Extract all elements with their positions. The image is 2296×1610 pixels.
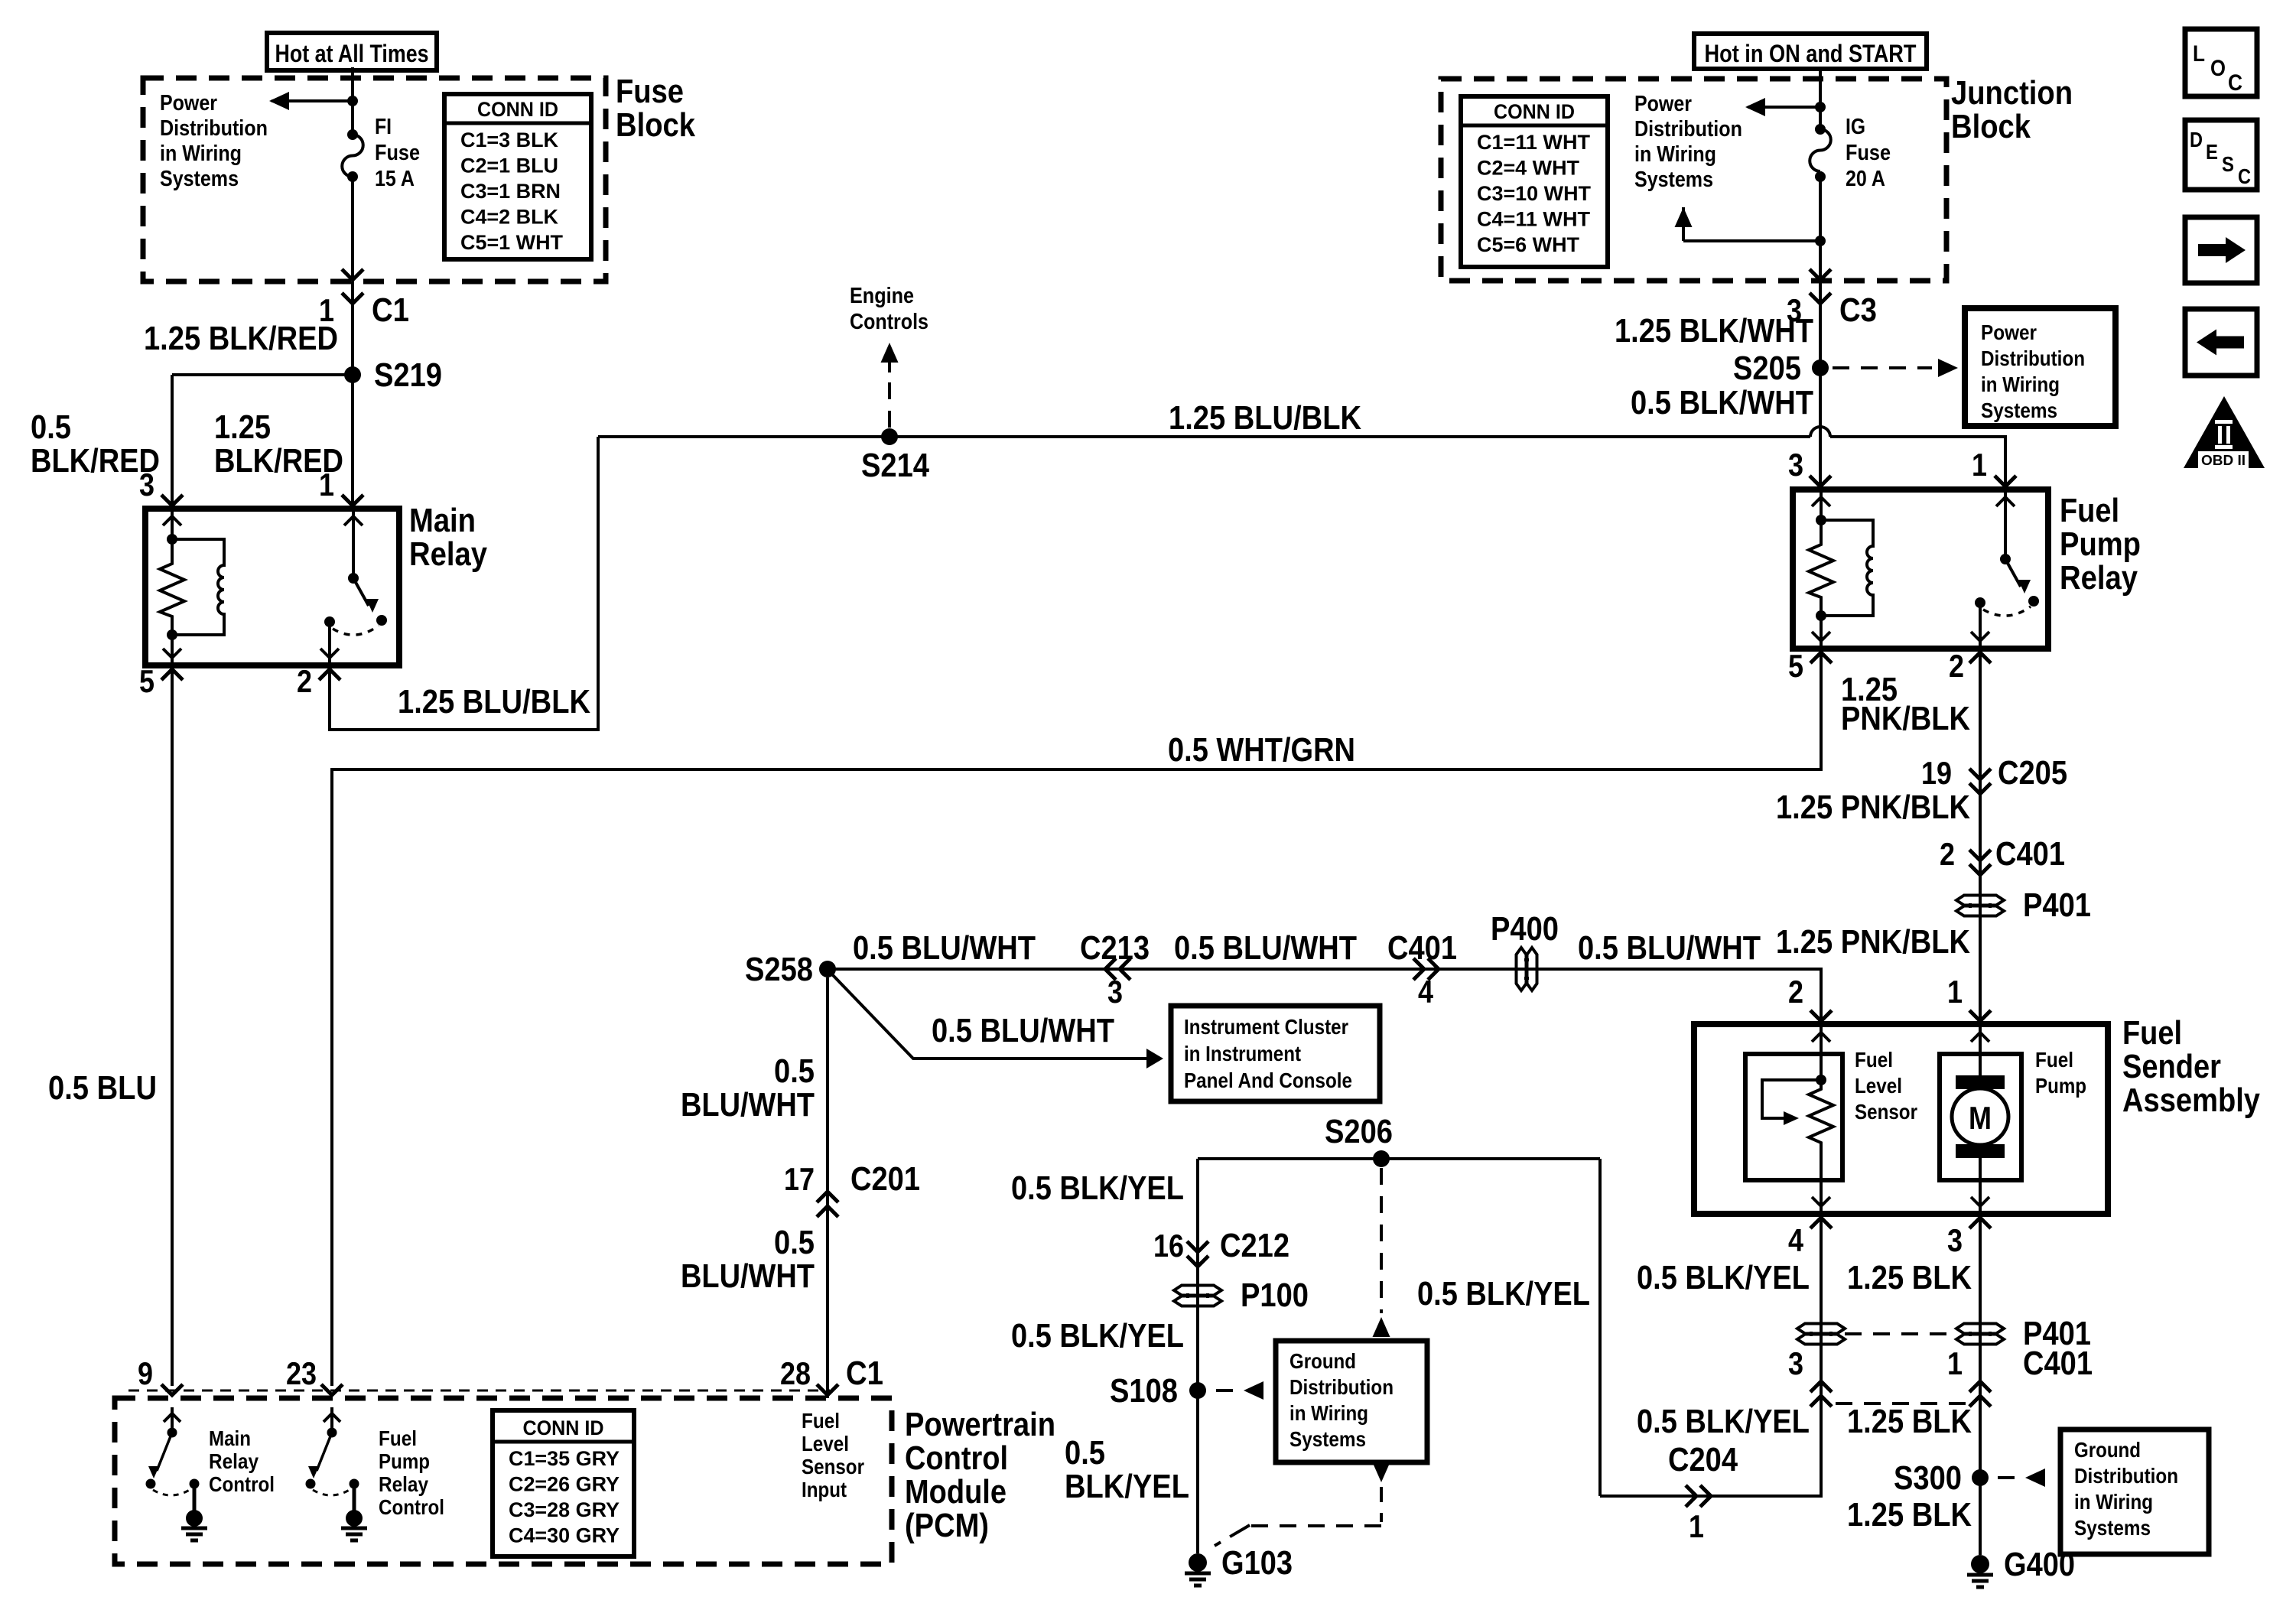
splice S258 dot <box>819 961 836 977</box>
connector P401 pancake (pin 4 side) <box>1797 1324 1845 1334</box>
svg-text:Controls: Controls <box>850 310 928 334</box>
wire S258 to instrument cluster <box>832 974 1157 1059</box>
svg-text:C4=30 GRY: C4=30 GRY <box>509 1524 620 1547</box>
connector C1 pin 1 chevron <box>342 293 363 304</box>
svg-text:S206: S206 <box>1325 1113 1393 1150</box>
fuel pump relay box <box>1793 490 2048 649</box>
arrow to power distribution (left) <box>272 99 353 102</box>
wire S206 horizontal run (0.5 BLK/YEL) <box>1198 1157 1600 1160</box>
splice S108 dot <box>1189 1382 1206 1399</box>
relay switch arm <box>2005 559 2021 587</box>
svg-text:E: E <box>2206 140 2218 164</box>
svg-text:2: 2 <box>1949 648 1964 684</box>
svg-text:C401: C401 <box>1995 835 2065 873</box>
connector C212 chevrons <box>1187 1241 1208 1252</box>
ground G400 symbol <box>1971 1555 1989 1573</box>
fuel level sensor feed wire with arrow <box>1820 1024 1823 1080</box>
svg-text:0.5 WHT/GRN: 0.5 WHT/GRN <box>1168 731 1355 769</box>
svg-text:Instrument Cluster: Instrument Cluster <box>1184 1015 1348 1039</box>
relay coil-side wire with entry arrow <box>1820 490 1823 520</box>
svg-text:Panel And Console: Panel And Console <box>1184 1068 1352 1092</box>
svg-text:Systems: Systems <box>1634 168 1713 192</box>
main relay box <box>145 509 399 665</box>
svg-text:0.5 BLK/YEL: 0.5 BLK/YEL <box>1637 1403 1810 1440</box>
svg-text:0.5 BLU: 0.5 BLU <box>48 1069 157 1107</box>
label box Hot in ON and START <box>1694 34 1927 69</box>
relay coil <box>172 539 224 635</box>
svg-text:C2=4 WHT: C2=4 WHT <box>1477 157 1580 180</box>
relay switch arm <box>353 578 369 606</box>
reference box Ground Distribution in Wiring Systems (right) <box>2060 1429 2209 1554</box>
relay switch output contact dot <box>324 616 335 627</box>
relay switch dashed travel arc <box>1983 607 2031 616</box>
PCM connector C1 thin dashed line <box>128 1390 830 1392</box>
svg-text:Fuel: Fuel <box>379 1426 417 1450</box>
wire S206 to G103 (0.5 BLK/YEL) <box>1196 1159 1199 1553</box>
icon box DESC <box>2185 120 2257 190</box>
svg-text:Engine: Engine <box>850 284 914 308</box>
svg-text:Fuse: Fuse <box>375 141 420 165</box>
wire battery feed into fuse block <box>351 67 354 135</box>
PCM driver switch arm with arrowhead <box>157 1433 172 1471</box>
svg-text:2: 2 <box>297 663 312 699</box>
svg-text:3: 3 <box>1107 974 1123 1010</box>
connector chevron PCM pin 23 <box>321 1384 343 1395</box>
dashed wire S206 to ground distribution box (arrow up) <box>1380 1168 1383 1313</box>
svg-text:Systems: Systems <box>1981 398 2057 422</box>
wire fuel sender pin 4 (0.5 BLK/YEL) to C204 <box>1600 1219 1821 1496</box>
wire 1.25 BLU/BLK long run to fuel pump relay <box>598 435 1810 438</box>
svg-text:G103: G103 <box>1221 1544 1293 1582</box>
fuel level sensor junction dot <box>1816 1075 1826 1085</box>
svg-text:S108: S108 <box>1110 1372 1178 1410</box>
fuel pump feed wire with arrow <box>1979 1024 1982 1078</box>
svg-text:in Wiring: in Wiring <box>160 141 242 166</box>
svg-text:Main: Main <box>409 502 476 539</box>
svg-text:CONN ID: CONN ID <box>477 98 558 121</box>
connector chevron fuel pump relay pin 3 <box>1810 476 1831 486</box>
svg-text:C3=1 BRN: C3=1 BRN <box>460 180 561 203</box>
dashed tie between P401 halves <box>1845 1332 1955 1335</box>
connector P400 pancake <box>1517 948 1527 990</box>
icon box left arrow <box>2185 309 2257 376</box>
svg-text:P100: P100 <box>1241 1277 1309 1314</box>
relay coil bottom junction dot <box>167 629 177 640</box>
fuel level sensor output wire with arrow <box>1820 1180 1823 1214</box>
svg-text:Distribution: Distribution <box>1634 117 1742 141</box>
svg-text:1: 1 <box>1947 974 1963 1010</box>
wire fuel pump relay pin 5 (0.5 WHT/GRN) to PCM pin 23 <box>332 654 1821 1386</box>
wire fuel pump relay pin 2 to fuel sender pin 1 <box>1979 654 1982 1024</box>
svg-text:Relay: Relay <box>2060 559 2138 597</box>
wire S258 to fuel sender pin 2 (0.5 BLU/WHT) <box>828 969 1821 1024</box>
PCM driver switch dashed arc <box>153 1488 192 1495</box>
wire C3 to S205 to fuel pump relay pin 3 <box>1819 281 1822 493</box>
svg-text:CONN ID: CONN ID <box>1494 100 1575 123</box>
svg-text:Systems: Systems <box>160 167 239 191</box>
svg-text:0.5 BLK/YEL: 0.5 BLK/YEL <box>1011 1169 1184 1207</box>
connector C201 chevrons <box>817 1206 838 1217</box>
svg-text:C2=1 BLU: C2=1 BLU <box>460 154 558 177</box>
connector chevron fuel pump relay pin 2 <box>1969 652 1991 663</box>
PCM driver switch dashed arc <box>313 1488 352 1495</box>
svg-text:C204: C204 <box>1668 1441 1738 1478</box>
connector chevron fuel sender pin 2 <box>1810 1010 1832 1021</box>
relay switch output contact dot <box>1975 597 1985 608</box>
svg-text:1.25 PNK/BLK: 1.25 PNK/BLK <box>1776 789 1970 826</box>
svg-text:C2=26 GRY: C2=26 GRY <box>509 1473 620 1496</box>
svg-text:Fuel: Fuel <box>2060 492 2119 529</box>
svg-text:C401: C401 <box>2023 1345 2093 1382</box>
svg-text:Systems: Systems <box>1289 1427 1366 1451</box>
svg-text:C3=28 GRY: C3=28 GRY <box>509 1498 620 1521</box>
svg-text:Sensor: Sensor <box>1855 1100 1917 1124</box>
svg-text:S300: S300 <box>1894 1459 1962 1497</box>
svg-text:Relay: Relay <box>209 1449 259 1473</box>
svg-text:Distribution: Distribution <box>160 116 268 141</box>
dashed tie between C401 halves <box>1836 1402 1966 1405</box>
fuel sender assembly box <box>1694 1024 2108 1214</box>
PCM driver switch entry arrow <box>171 1407 174 1433</box>
PCM driver ground stem <box>353 1484 356 1511</box>
svg-text:CONN ID: CONN ID <box>523 1416 604 1439</box>
conn id table (PCM) <box>493 1410 634 1556</box>
relay switch pivot dot <box>348 573 359 584</box>
svg-text:S219: S219 <box>374 356 442 394</box>
junction dot at ignition feed <box>1815 102 1826 112</box>
svg-text:Sensor: Sensor <box>802 1455 864 1478</box>
powertrain control module dashed box <box>115 1398 892 1564</box>
reference box Ground Distribution in Wiring Systems (middle) <box>1276 1341 1427 1462</box>
svg-text:D: D <box>2190 128 2203 151</box>
connector chevron main relay pin 5 <box>161 669 183 680</box>
svg-text:Level: Level <box>802 1432 849 1456</box>
svg-text:C4=2 BLK: C4=2 BLK <box>460 206 558 229</box>
relay switch thrown-contact dot <box>376 615 387 626</box>
relay switch output wire with exit arrow <box>1979 603 1982 649</box>
splice S206 dot <box>1373 1150 1390 1167</box>
svg-text:Power: Power <box>1981 320 2037 344</box>
connector C205 chevrons <box>1969 769 1991 779</box>
svg-text:in Wiring: in Wiring <box>1289 1401 1368 1425</box>
svg-text:M: M <box>1969 1100 1992 1136</box>
svg-text:Control: Control <box>905 1439 1008 1477</box>
svg-text:S205: S205 <box>1733 350 1801 387</box>
svg-text:C1=11 WHT: C1=11 WHT <box>1477 131 1590 154</box>
svg-text:C5=6 WHT: C5=6 WHT <box>1477 233 1580 256</box>
connector C3 pin 3 chevron <box>1810 293 1831 304</box>
PCM driver switch arm with arrowhead <box>317 1433 332 1471</box>
dashed arrow S205 to power distribution box <box>1833 366 1932 369</box>
icon box right arrow <box>2185 217 2257 283</box>
svg-text:Hot in ON and START: Hot in ON and START <box>1705 40 1917 67</box>
PCM driver switch pivot dot <box>327 1428 337 1438</box>
conn id table (junction block) <box>1461 96 1608 267</box>
svg-text:Sender: Sender <box>2122 1048 2221 1085</box>
svg-text:BLU/WHT: BLU/WHT <box>681 1086 815 1124</box>
wire main relay pin 2 to 1.25 BLU/BLK run <box>330 437 598 730</box>
dashed arrow S300 to ground distribution box <box>1998 1476 2019 1479</box>
svg-text:in Instrument: in Instrument <box>1184 1042 1301 1065</box>
wire C1 to S219 and main relay pin 1 <box>351 281 354 509</box>
svg-text:Module: Module <box>905 1473 1007 1511</box>
reference box Instrument Cluster in Instrument Panel And Console <box>1171 1006 1380 1101</box>
conn id table (fuse block) <box>444 94 591 259</box>
fuel level sensor resistor <box>1809 1080 1833 1180</box>
svg-text:2: 2 <box>1940 836 1955 872</box>
splice S205 dot <box>1812 359 1829 376</box>
fuel pump motor circle with M <box>1952 1088 2008 1145</box>
junction block dashed box <box>1441 79 1946 281</box>
svg-text:5: 5 <box>1788 648 1803 684</box>
exit arrow at junction block edge <box>1810 269 1831 280</box>
svg-text:Control: Control <box>209 1472 275 1496</box>
svg-text:in Wiring: in Wiring <box>2074 1490 2153 1514</box>
svg-text:Pump: Pump <box>379 1449 430 1473</box>
connector chevron main relay pin 1 <box>342 495 363 506</box>
svg-text:OBD II: OBD II <box>2201 453 2246 468</box>
svg-text:Powertrain: Powertrain <box>905 1406 1055 1443</box>
svg-text:5: 5 <box>139 663 154 699</box>
svg-text:Main: Main <box>209 1426 251 1450</box>
svg-text:C1: C1 <box>846 1355 883 1392</box>
fuse IG 20A symbol <box>1815 124 1826 135</box>
svg-text:in Wiring: in Wiring <box>1981 372 2060 396</box>
svg-text:Pump: Pump <box>2035 1074 2086 1098</box>
fuel pump motor brushes <box>1956 1075 2005 1089</box>
svg-text:1.25 BLU/BLK: 1.25 BLU/BLK <box>1169 399 1361 437</box>
svg-text:1: 1 <box>1972 447 1987 483</box>
svg-text:1: 1 <box>1689 1508 1704 1544</box>
relay switch thrown-contact dot <box>2028 596 2039 607</box>
wire hop over 0.5 BLK/WHT wire <box>1810 427 1830 437</box>
svg-text:0.5: 0.5 <box>1065 1434 1105 1472</box>
svg-text:Fuel: Fuel <box>2122 1014 2182 1052</box>
connector P100 pancake <box>1174 1286 1221 1296</box>
junction dot at fuse feed <box>347 96 358 106</box>
svg-text:0.5: 0.5 <box>774 1224 815 1261</box>
PCM driver switch closed contact dot <box>350 1479 359 1489</box>
svg-text:C3: C3 <box>1839 291 1877 329</box>
fuel level sensor wiper arrow <box>1762 1080 1821 1118</box>
wire IG fuse to C3 <box>1819 171 1822 280</box>
connector chevron fuel pump relay pin 1 <box>1995 476 2016 486</box>
svg-text:in Wiring: in Wiring <box>1634 142 1716 167</box>
svg-text:C: C <box>2228 70 2242 96</box>
svg-text:O: O <box>2210 56 2226 81</box>
connector C204 chevrons <box>1686 1485 1696 1507</box>
svg-text:Power: Power <box>1634 92 1692 116</box>
svg-text:Systems: Systems <box>2074 1516 2151 1540</box>
connector chevron PCM pin 9 <box>161 1384 183 1395</box>
connector C401 chevrons (pin 2) <box>1969 850 1991 860</box>
fuse block dashed box <box>143 78 606 281</box>
svg-text:Relay: Relay <box>409 535 487 573</box>
svg-text:4: 4 <box>1788 1222 1804 1258</box>
svg-text:C212: C212 <box>1220 1227 1289 1264</box>
connector chevron main relay pin 2 <box>319 669 340 680</box>
svg-text:1.25 BLK/RED: 1.25 BLK/RED <box>144 320 338 357</box>
relay resistor <box>1809 520 1833 616</box>
PCM driver switch closed contact dot <box>190 1479 200 1489</box>
svg-text:Distribution: Distribution <box>2074 1464 2178 1488</box>
svg-text:Relay: Relay <box>379 1472 428 1496</box>
svg-text:0.5 BLK/YEL: 0.5 BLK/YEL <box>1011 1317 1184 1355</box>
svg-text:1: 1 <box>1947 1345 1963 1381</box>
connector chevron fuel pump relay pin 5 <box>1810 652 1832 663</box>
svg-text:28: 28 <box>780 1355 811 1391</box>
svg-text:1.25 BLU/BLK: 1.25 BLU/BLK <box>398 683 590 720</box>
svg-text:3: 3 <box>1788 1345 1803 1381</box>
fuel pump sub-box <box>1940 1054 2021 1180</box>
PCM driver ground symbol <box>346 1510 363 1527</box>
svg-text:0.5: 0.5 <box>31 408 71 446</box>
svg-text:IG: IG <box>1846 115 1865 139</box>
wire S258 to PCM pin 28 (0.5 BLU/WHT) <box>826 977 829 1398</box>
svg-text:C3=10 WHT: C3=10 WHT <box>1477 182 1592 205</box>
svg-text:Fuse: Fuse <box>1846 141 1891 165</box>
svg-text:PNK/BLK: PNK/BLK <box>1841 700 1970 737</box>
wire fuse output to C1 <box>351 177 354 280</box>
svg-text:1.25 PNK/BLK: 1.25 PNK/BLK <box>1776 923 1970 961</box>
svg-text:3: 3 <box>1947 1222 1963 1258</box>
svg-text:1: 1 <box>319 467 334 503</box>
relay coil top junction dot <box>167 534 177 545</box>
svg-text:S: S <box>2222 152 2234 176</box>
svg-text:0.5: 0.5 <box>774 1052 815 1090</box>
svg-text:Block: Block <box>616 106 695 144</box>
svg-text:Distribution: Distribution <box>1981 346 2085 370</box>
relay coil <box>1821 520 1873 616</box>
svg-text:C401: C401 <box>1387 929 1457 967</box>
connector chevron fuel sender pin 1 <box>1969 1010 1991 1021</box>
splice S214 dot <box>881 428 898 445</box>
svg-text:Input: Input <box>802 1478 847 1501</box>
svg-text:Ground: Ground <box>2074 1438 2141 1462</box>
svg-text:Power: Power <box>160 91 217 115</box>
relay switch dashed travel arc <box>333 626 379 635</box>
svg-text:0.5 BLK/YEL: 0.5 BLK/YEL <box>1417 1275 1590 1312</box>
relay switch pivot dot <box>2000 554 2011 564</box>
wire fuel sender pin 3 (1.25 BLK) to G400 <box>1979 1219 1982 1555</box>
svg-text:C4=11 WHT: C4=11 WHT <box>1477 208 1590 231</box>
connector P401 pancake (fuel feed) <box>1956 896 2004 906</box>
wire ignition feed into junction block <box>1819 68 1822 129</box>
svg-text:Fuel: Fuel <box>2035 1048 2073 1072</box>
svg-text:1.25 BLK: 1.25 BLK <box>1847 1496 1972 1534</box>
relay switch common wire with entry arrow <box>352 509 355 578</box>
relay coil bottom junction dot <box>1816 610 1826 621</box>
connector P401 pancake (pin 3 side) <box>1956 1324 2004 1334</box>
svg-text:0.5 BLU/WHT: 0.5 BLU/WHT <box>1578 929 1761 967</box>
PCM driver switch pivot dot <box>167 1428 177 1438</box>
splice S300 dot <box>1972 1469 1989 1486</box>
wire C204 riser to S206 run <box>1598 1159 1602 1496</box>
svg-text:C5=1 WHT: C5=1 WHT <box>460 231 563 254</box>
PCM driver switch open contact dot <box>306 1479 316 1489</box>
svg-text:Fuel: Fuel <box>802 1409 840 1433</box>
splice S219 dot <box>344 366 361 383</box>
svg-text:0.5 BLK/YEL: 0.5 BLK/YEL <box>1637 1259 1810 1296</box>
wire S219 branch to main relay pin 3 <box>172 373 353 376</box>
connector chevron PCM pin 28 <box>817 1384 838 1395</box>
svg-text:Fuse: Fuse <box>616 73 684 110</box>
svg-text:0.5 BLK/WHT: 0.5 BLK/WHT <box>1631 384 1813 421</box>
connector chevron main relay pin 3 <box>161 495 183 506</box>
ground G103 symbol <box>1189 1553 1207 1572</box>
svg-text:Block: Block <box>1951 108 2031 145</box>
svg-text:P401: P401 <box>2023 886 2091 924</box>
PCM driver ground symbol <box>186 1510 203 1527</box>
svg-text:Control: Control <box>379 1495 444 1519</box>
svg-text:9: 9 <box>138 1355 153 1391</box>
reference box Power Distribution in Wiring Systems <box>1965 308 2116 426</box>
svg-text:C205: C205 <box>1998 754 2067 792</box>
svg-text:19: 19 <box>1921 755 1952 791</box>
wire main relay pin 5 to PCM pin 9 (0.5 BLU) <box>171 671 174 1386</box>
fuse FI 15A symbol <box>347 129 358 140</box>
PCM driver ground stem <box>193 1484 197 1511</box>
svg-text:Distribution: Distribution <box>1289 1375 1394 1399</box>
svg-text:0.5 BLU/WHT: 0.5 BLU/WHT <box>932 1012 1114 1049</box>
connector C401 chevrons (pin 3 side) <box>1969 1396 1991 1407</box>
svg-text:1.25: 1.25 <box>214 408 271 446</box>
svg-text:20 A: 20 A <box>1846 167 1885 191</box>
svg-text:BLU/WHT: BLU/WHT <box>681 1257 815 1295</box>
relay switch common wire with entry arrow <box>2004 490 2007 559</box>
relay coil top junction dot <box>1816 515 1826 525</box>
svg-text:17: 17 <box>784 1161 815 1197</box>
svg-text:S214: S214 <box>861 447 929 484</box>
svg-text:C1: C1 <box>372 291 409 329</box>
exit arrow at fuse block edge <box>342 269 363 280</box>
svg-text:S258: S258 <box>745 951 813 988</box>
branch arrow up inside junction block <box>1675 207 1693 227</box>
dashed wire ground distribution to G103 (arrow down) <box>1373 1462 1390 1482</box>
fuel pump output wire with arrow <box>1979 1157 1982 1214</box>
svg-text:2: 2 <box>1788 974 1803 1010</box>
svg-text:0.5 BLU/WHT: 0.5 BLU/WHT <box>853 929 1036 967</box>
svg-text:Junction: Junction <box>1951 74 2073 112</box>
connector C213 chevrons <box>1120 958 1130 980</box>
svg-text:C1=3 BLK: C1=3 BLK <box>460 128 558 151</box>
svg-text:Pump: Pump <box>2060 525 2141 563</box>
relay coil exit wire with arrow <box>1820 616 1823 649</box>
svg-text:BLK/YEL: BLK/YEL <box>1065 1468 1189 1505</box>
relay resistor <box>160 539 184 635</box>
svg-text:0.5 BLU/WHT: 0.5 BLU/WHT <box>1174 929 1357 967</box>
svg-text:Assembly: Assembly <box>2122 1081 2260 1119</box>
arrow to power distribution (junction block) <box>1748 106 1820 109</box>
relay coil exit wire with arrow <box>171 635 174 665</box>
dashed arrow to engine controls <box>881 343 899 363</box>
svg-text:23: 23 <box>286 1355 317 1391</box>
svg-text:C213: C213 <box>1080 929 1150 967</box>
svg-text:15 A: 15 A <box>375 167 415 191</box>
connector chevron fuel sender pin 3 <box>1969 1218 1991 1228</box>
svg-text:C1=35 GRY: C1=35 GRY <box>509 1447 620 1470</box>
svg-text:P400: P400 <box>1491 910 1559 948</box>
svg-text:Ground: Ground <box>1289 1349 1356 1373</box>
junction dot on ignition wire <box>1815 236 1826 246</box>
connector C401 chevrons (pin 4 side) <box>1810 1396 1832 1407</box>
svg-text:(PCM): (PCM) <box>905 1507 989 1544</box>
svg-text:16: 16 <box>1153 1228 1184 1264</box>
svg-text:3: 3 <box>139 467 154 503</box>
relay switch output wire with exit arrow <box>328 622 331 665</box>
svg-text:Hot at All Times: Hot at All Times <box>275 40 429 67</box>
svg-text:1.25 BLK/WHT: 1.25 BLK/WHT <box>1615 312 1813 350</box>
